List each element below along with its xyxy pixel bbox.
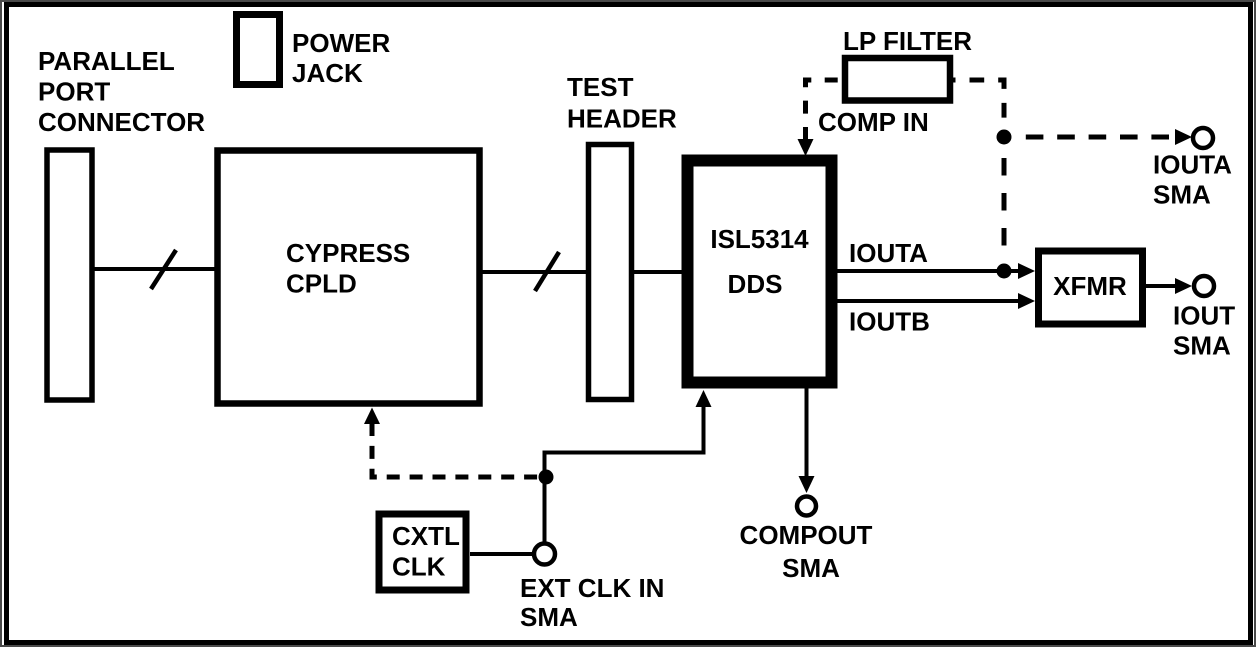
arrow into IOUT SMA (1175, 278, 1192, 294)
label TEST HEADER (567, 72, 677, 134)
svg-text:COMPOUT: COMPOUT (740, 520, 873, 550)
svg-text:CXTL: CXTL (392, 521, 460, 551)
test header J2 (589, 145, 632, 400)
bus slash 1 (151, 250, 176, 289)
parallel port connector J1 (47, 150, 92, 400)
label ISL5314 DDS (710, 224, 809, 299)
svg-text:CYPRESS: CYPRESS (286, 238, 410, 268)
svg-text:HEADER: HEADER (567, 104, 677, 134)
wire XFMR to IOUT SMA (1146, 284, 1176, 288)
label COMPOUT SMA (740, 520, 873, 583)
svg-text:PORT: PORT (38, 77, 110, 107)
IOUTA SMA connector circle (1193, 128, 1213, 148)
svg-text:SMA: SMA (1153, 180, 1211, 210)
COMPOUT SMA connector circle (797, 497, 816, 516)
svg-text:SMA: SMA (782, 553, 840, 583)
CPLD U1 (218, 151, 480, 404)
arrow into DDS top (COMP IN) (798, 139, 814, 156)
power jack (237, 15, 280, 85)
svg-text:DDS: DDS (728, 269, 783, 299)
svg-text:IOUTA: IOUTA (849, 238, 928, 268)
dashed wire clock to CPLD (372, 423, 538, 477)
wire IOUTB from DDS to XFMR (837, 299, 1020, 303)
arrow IOUTA into XFMR (1018, 263, 1035, 279)
svg-text:LP FILTER: LP FILTER (843, 26, 972, 56)
DDS U2 ISL5314 (688, 161, 832, 383)
svg-text:POWER: POWER (292, 28, 390, 58)
svg-text:ISL5314: ISL5314 (710, 224, 809, 254)
label CYPRESS CPLD (286, 238, 410, 299)
wire test header to DDS (631, 270, 685, 274)
arrow COMPOUT down (799, 476, 815, 493)
label IOUTA SMA (1153, 150, 1232, 210)
wire IOUTA from DDS to XFMR (837, 269, 1020, 273)
label POWER JACK (292, 28, 390, 88)
dashed wire node A down to node B (1002, 141, 1007, 264)
node junction dot A (997, 130, 1012, 145)
wire CPLD to test header (480, 270, 589, 274)
wire CXTL to EXT CLK SMA (470, 552, 534, 556)
wire COMPOUT down from DDS (805, 382, 809, 478)
arrow clock into DDS bottom (696, 390, 712, 407)
svg-text:IOUTB: IOUTB (849, 307, 930, 337)
crystal clock box Y1 (379, 514, 466, 590)
svg-text:EXT CLK IN: EXT CLK IN (520, 573, 664, 603)
svg-text:IOUT: IOUT (1173, 301, 1235, 331)
wire port to CPLD (92, 267, 217, 271)
svg-text:SMA: SMA (520, 602, 578, 632)
svg-text:XFMR: XFMR (1053, 271, 1127, 301)
svg-text:IOUTA: IOUTA (1153, 150, 1232, 180)
dashed wire DDS comp-in up to LP filter (806, 80, 843, 140)
node junction dot C (539, 470, 554, 485)
transformer XFMR T1 (1039, 251, 1143, 324)
arrow clock into CPLD bottom (364, 408, 380, 425)
label PARALLEL PORT CONNECTOR (38, 46, 205, 137)
svg-text:TEST: TEST (567, 72, 634, 102)
svg-text:PARALLEL: PARALLEL (38, 46, 175, 76)
label EXT CLK IN SMA (520, 573, 664, 632)
arrow into IOUTA SMA (1175, 129, 1192, 145)
bus slash 2 (535, 252, 559, 291)
arrow IOUTB into XFMR (1018, 293, 1035, 309)
node junction dot B (997, 264, 1012, 279)
dashed wire node A to IOUTA SMA (1012, 135, 1174, 140)
wire clock solid path to DDS bottom (545, 407, 704, 544)
label IOUT SMA (1173, 301, 1235, 361)
svg-text:JACK: JACK (292, 58, 363, 88)
EXT CLK IN SMA connector circle (534, 544, 555, 565)
svg-text:CPLD: CPLD (286, 269, 357, 299)
svg-text:COMP IN: COMP IN (818, 107, 929, 137)
svg-text:SMA: SMA (1173, 331, 1231, 361)
svg-text:CLK: CLK (392, 552, 446, 582)
svg-text:CONNECTOR: CONNECTOR (38, 107, 205, 137)
IOUT SMA connector circle (1194, 276, 1214, 296)
LP filter F1 (845, 58, 950, 101)
label CXTL CLK (392, 521, 460, 582)
dashed wire LP filter to corner and down to node (953, 80, 1004, 129)
